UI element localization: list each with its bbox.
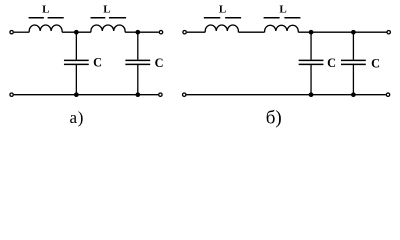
svg-text:а): а) (69, 108, 84, 127)
node junction top C4 (351, 30, 356, 35)
node junction top C3 (309, 30, 314, 35)
wire L4 to top-right terminal circuit b (298, 31, 386, 33)
svg-text:L: L (103, 4, 110, 16)
node junction bottom C3 (309, 92, 314, 97)
node junction top C1 (74, 30, 79, 35)
capacitor C3 plates (299, 60, 324, 64)
label L2 overline dashes (91, 17, 127, 19)
capacitor C3 top stub (310, 32, 312, 60)
wire L1 to L2 through node (62, 31, 91, 33)
node junction bottom C1 (74, 92, 79, 97)
inductor L4 (265, 25, 299, 32)
terminal bottom-right circuit a (159, 93, 162, 96)
capacitor C1 top stub (75, 32, 77, 60)
terminal bottom-left circuit b (183, 93, 186, 96)
inductor L3 (205, 25, 238, 32)
wire L2 to top-right terminal (125, 31, 159, 33)
capacitor C1 bottom stub (75, 64, 77, 94)
wire top rail circuit a input lead (14, 31, 29, 33)
label L4 overline dashes (264, 17, 301, 19)
capacitor C1 plates (64, 60, 89, 64)
svg-text:C: C (327, 56, 336, 70)
capacitor C4 bottom stub (352, 64, 354, 94)
svg-text:C: C (93, 55, 102, 69)
terminal bottom-right circuit b (386, 93, 389, 96)
inductor L1 (29, 25, 62, 32)
wire L3 to L4 (238, 31, 264, 33)
svg-text:L: L (42, 4, 49, 16)
capacitor C2 plates (125, 60, 150, 64)
capacitor C3 bottom stub (310, 64, 312, 94)
svg-text:L: L (219, 4, 226, 16)
terminal bottom-left circuit a (10, 93, 13, 96)
svg-text:L: L (279, 4, 286, 16)
wire top rail circuit b input lead (187, 31, 205, 33)
wire bottom rail circuit a (14, 94, 158, 96)
terminal top-left circuit b (183, 31, 186, 34)
label L3 overline dashes (204, 17, 241, 19)
node junction top C2 (135, 30, 140, 35)
svg-text:б): б) (266, 108, 282, 129)
node junction bottom C2 (135, 92, 140, 97)
terminal top-left circuit a (10, 31, 13, 34)
wire bottom rail circuit b (186, 94, 385, 96)
svg-text:C: C (155, 56, 164, 70)
node junction bottom C4 (351, 92, 356, 97)
capacitor C2 bottom stub (137, 64, 139, 94)
terminal top-right circuit b (387, 31, 390, 34)
svg-text:C: C (371, 56, 380, 70)
capacitor C2 top stub (137, 32, 139, 60)
inductor L2 (91, 25, 125, 32)
label L1 overline dashes (29, 17, 64, 19)
terminal top-right circuit a (159, 31, 162, 34)
capacitor C4 plates (341, 60, 366, 64)
capacitor C4 top stub (352, 32, 354, 60)
